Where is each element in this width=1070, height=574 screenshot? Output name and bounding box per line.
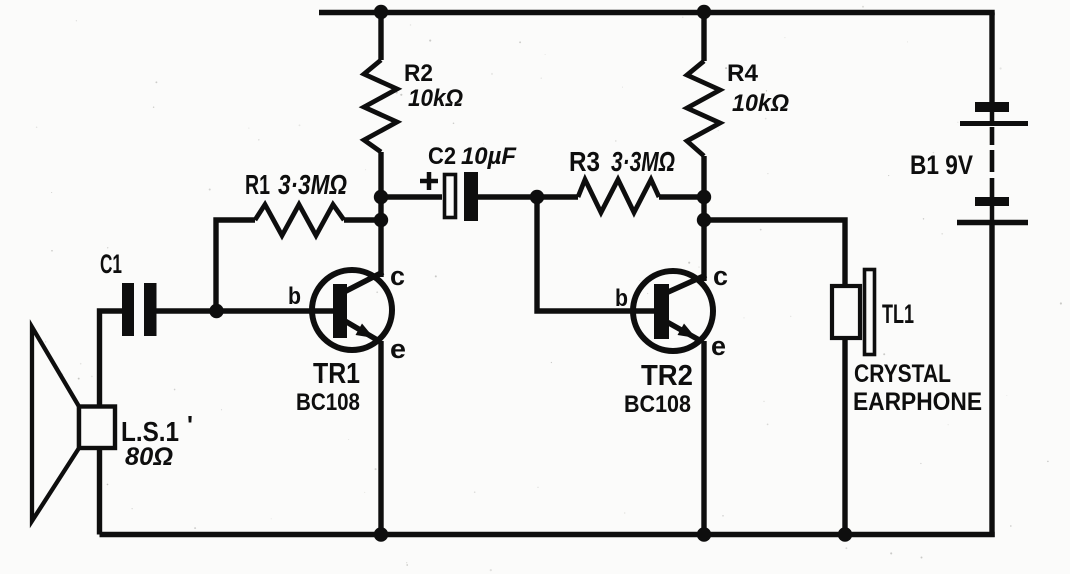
wire TR1 collector vertical	[378, 220, 383, 277]
wire TL1 bottom lead	[842, 338, 847, 535]
capacitor C2 plus sign	[420, 172, 438, 190]
svg-text:CRYSTAL: CRYSTAL	[854, 360, 951, 388]
resistor R4	[687, 61, 720, 156]
wire R2 bottom to R1 node	[378, 152, 383, 220]
resistor R2	[364, 60, 397, 152]
wire R3 left lead	[537, 194, 578, 199]
svg-text:EARPHONE: EARPHONE	[853, 388, 982, 416]
svg-text:C2: C2	[428, 143, 456, 170]
svg-text:3·3MΩ: 3·3MΩ	[611, 146, 675, 177]
wire R2 top	[378, 12, 383, 60]
battery B1 inner dashed link	[990, 127, 995, 197]
speaker LS1 cone	[32, 327, 79, 521]
transistor TR2	[633, 271, 713, 351]
transistor TR1	[312, 270, 392, 350]
wire bottom return rail	[100, 532, 995, 537]
node junction collector/TL1	[697, 213, 711, 227]
svg-text:c: c	[713, 261, 728, 291]
wire TR2 emitter vertical	[701, 341, 706, 535]
wire TR2 base drop	[537, 197, 655, 311]
svg-text:': '	[187, 410, 193, 440]
battery B1 cell2 stub	[990, 206, 995, 220]
node junction base/R1/C1	[209, 304, 223, 318]
svg-text:e: e	[390, 334, 406, 364]
wire top supply rail	[319, 10, 995, 15]
wire C2 right lead	[478, 194, 537, 199]
svg-text:3·3MΩ: 3·3MΩ	[278, 169, 347, 200]
battery B1 cell2 long plate	[957, 220, 1028, 226]
battery B1 cell1 stub	[990, 112, 995, 121]
node junction TR2 emitter rail	[697, 527, 711, 541]
earphone TL1 crystal plate	[865, 270, 875, 355]
wire TR2 collector vertical	[701, 220, 706, 281]
node junction TR1 emitter rail	[374, 527, 388, 541]
wire R1 right lead	[344, 217, 381, 222]
capacitor C2 negative plate (hollow)	[445, 175, 456, 218]
node junction top R2	[374, 5, 388, 19]
svg-text:b: b	[288, 283, 301, 310]
speaker LS1 box	[79, 407, 115, 449]
wire speaker branch vertical	[100, 311, 123, 535]
svg-text:10kΩ: 10kΩ	[408, 85, 463, 112]
wire R1 left leg	[216, 220, 255, 311]
svg-text:e: e	[711, 331, 726, 361]
capacitor C1 left plate	[122, 283, 134, 336]
battery B1 cell2 short plate	[975, 197, 1009, 206]
node junction top R4	[697, 5, 711, 19]
svg-text:C1: C1	[100, 249, 122, 279]
svg-text:R4: R4	[727, 60, 759, 87]
earphone TL1 body	[832, 286, 860, 338]
node junction C2/R3/base	[530, 190, 544, 204]
svg-text:TL1: TL1	[882, 299, 914, 329]
svg-text:b: b	[615, 285, 628, 312]
wire C2 left lead	[381, 194, 442, 199]
wire battery negative drop	[989, 225, 994, 537]
svg-text:10µF: 10µF	[461, 143, 517, 170]
svg-text:TR1: TR1	[313, 358, 360, 390]
battery B1 cell1 short plate	[975, 102, 1009, 112]
svg-text:c: c	[390, 261, 405, 291]
node junction TL1 rail	[838, 527, 852, 541]
capacitor C1 right plate	[144, 283, 157, 336]
resistor R3	[578, 180, 659, 213]
node junction R3/R4	[697, 190, 711, 204]
wire R3 right lead	[659, 194, 704, 199]
svg-text:BC108: BC108	[296, 389, 360, 416]
svg-text:R3: R3	[569, 146, 600, 177]
wire R4 bottom	[701, 156, 706, 220]
svg-text:10kΩ: 10kΩ	[732, 90, 789, 117]
svg-text:TR2: TR2	[641, 360, 693, 392]
node junction R2/C2	[374, 190, 388, 204]
svg-text:80Ω: 80Ω	[125, 443, 173, 471]
battery B1 cell1 long plate	[960, 121, 1028, 126]
wire battery positive drop	[989, 13, 994, 103]
svg-text:R2: R2	[404, 60, 433, 87]
wire TL1 feed	[704, 220, 845, 286]
node junction R1/collector	[374, 213, 388, 227]
svg-text:R1: R1	[245, 169, 270, 200]
capacitor C2 positive plate (solid)	[464, 172, 478, 221]
wire C1 right lead to TR1 base	[156, 308, 340, 313]
resistor R1	[255, 205, 344, 236]
wire R4 top	[701, 12, 706, 61]
svg-text:BC108: BC108	[624, 391, 691, 418]
svg-text:B1 9V: B1 9V	[910, 150, 973, 180]
wire TR1 emitter vertical	[378, 341, 383, 535]
